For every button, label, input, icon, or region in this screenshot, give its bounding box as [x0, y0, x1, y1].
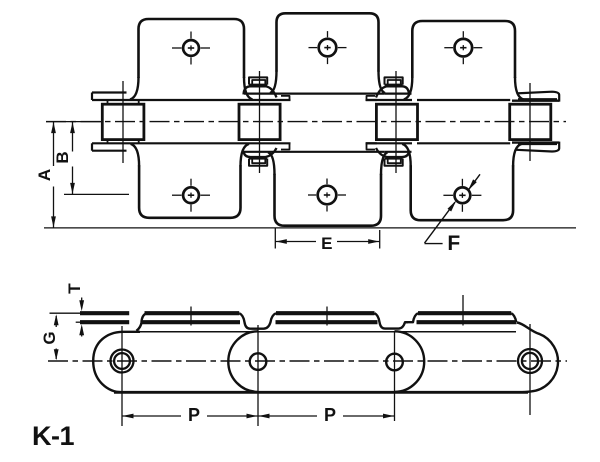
extension line E left: [274, 229, 276, 249]
leader arrow F upper: [468, 179, 477, 190]
hole centerline tick K3: [462, 295, 464, 326]
notch at joint 2: [239, 313, 276, 329]
leader arrow F lower: [448, 200, 457, 211]
attachment plate K2 top-middle flange: [277, 13, 379, 71]
dimension line P left: [122, 415, 181, 417]
top view chain centerline: [46, 121, 566, 123]
dimension line G: [55, 316, 57, 327]
inner plate edge bottom (joint 3): [366, 142, 377, 144]
pin 1 centerline: [122, 81, 124, 163]
outer bar joint 4 bottom: [517, 142, 560, 152]
outer bar joint 4 bottom top-edge: [512, 141, 559, 143]
bolt hole plate K1 bottom: [183, 187, 199, 203]
pin 4 centerline side: [529, 324, 531, 415]
flange leading S-curve link1: [137, 313, 147, 331]
roller 1: [102, 104, 144, 139]
outer bar joint 4 bottom inner line: [518, 143, 557, 145]
outer bar joint 2 bottom side: [244, 151, 271, 153]
arrow G bottom: [54, 349, 59, 360]
pin 3 head (top): [385, 77, 403, 84]
roller circle left end outer: [111, 350, 134, 373]
svg-text:P: P: [188, 405, 200, 425]
arrow P1 right: [247, 414, 258, 419]
outer bar joint 4 top: [517, 92, 560, 102]
pin circle right end inner: [522, 353, 538, 369]
svg-text:P: P: [324, 405, 336, 425]
flange end S-step right: [511, 313, 516, 322]
side view chain centerline: [48, 360, 567, 362]
outer bar joint 3 inner-edge bottom: [366, 142, 413, 144]
outer bar joint 4 top inner line: [518, 98, 557, 100]
outer bar joint 2 top: [244, 92, 271, 94]
notch right of pin 2 bottom: [281, 143, 290, 149]
pin 3 centerline: [395, 71, 397, 173]
arrow A bottom: [51, 216, 56, 227]
attachment plate K3 bottom-right flange: [411, 165, 513, 220]
outer plate top line (link 2-3): [271, 92, 385, 94]
tick line B bottom: [64, 193, 129, 195]
dimension line E: [275, 241, 316, 243]
attachment plate K1 bottom-left flange: [139, 165, 240, 218]
outer bar joint 3 top: [385, 92, 412, 94]
leader line F lower segment: [425, 202, 456, 243]
outer bar joint 3 top inner-edge: [366, 99, 413, 101]
roller 3: [376, 104, 417, 139]
extension line bottom of outer plate: [44, 227, 576, 229]
pin 1 centerline side: [121, 326, 123, 426]
outer plate top edge (joint 1 bar): [92, 91, 127, 93]
arrow B bottom: [70, 183, 75, 194]
dimension line P right: [258, 415, 317, 417]
inner plate edge top (link 3-4): [417, 99, 510, 101]
hole centerline tick K1: [190, 307, 192, 326]
arrow T lower: [81, 327, 83, 337]
bolt hole plate K3 bottom (hole F): [455, 187, 471, 203]
arrow A top: [51, 122, 56, 133]
roller 4: [510, 104, 551, 139]
dimension tick at chain centerline: [46, 121, 102, 123]
svg-text:G: G: [40, 331, 59, 344]
pin 2 centerline: [259, 71, 261, 173]
arrow G top: [54, 314, 59, 325]
inner plate edge top (joint 3): [366, 99, 377, 101]
arrow P2 right: [383, 414, 394, 419]
flange top line link1: [145, 311, 240, 315]
side view right end cap: [517, 323, 558, 393]
bushing stub: [107, 100, 109, 104]
outer bar joint 3 bottom: [385, 151, 412, 153]
flange bottom line (cut link): [80, 320, 129, 324]
outer plate end arc at pin 3: [395, 331, 425, 392]
svg-text:A: A: [35, 169, 54, 181]
inner plate edge bottom (link 3-4): [417, 142, 510, 144]
arrow B top: [70, 122, 75, 133]
arrow P2 left: [259, 414, 270, 419]
extension line E right: [379, 230, 381, 249]
attachment plate K3 top-right flange: [412, 21, 515, 78]
roller circle right end outer: [518, 349, 542, 373]
outer bar joint 2 inner-edge bottom side: [244, 142, 291, 144]
outer plate bar bottom edge (joint 1): [92, 150, 127, 152]
arrow T upper: [81, 298, 83, 309]
outer bar joint 4 top bottom-edge: [512, 99, 559, 101]
outer plate bar left end top: [91, 93, 93, 101]
pin 2 head (top): [249, 77, 267, 84]
side view left end cap: [93, 332, 140, 393]
arrow P1 left: [123, 414, 134, 419]
pin 2 head (bottom): [249, 159, 267, 166]
svg-text:T: T: [65, 283, 84, 294]
svg-text:F: F: [447, 232, 460, 255]
outer plate bar left end bottom: [91, 143, 93, 150]
bolt hole plate K2 bottom: [318, 186, 337, 205]
notch right of pin 2 top: [281, 96, 290, 100]
bolt hole plate K1 top: [183, 40, 199, 56]
notch left of pin 3 bottom: [367, 143, 376, 149]
inner plate edge bottom (link 1-2): [92, 142, 244, 144]
bolt hole plate K3 top: [455, 39, 473, 57]
dimension line B: [72, 122, 74, 152]
flange bottom line link1: [142, 320, 240, 324]
arrow E right: [368, 239, 379, 244]
notch at joint 3: [375, 313, 409, 328]
flange top line link3: [418, 311, 511, 315]
svg-text:K-1: K-1: [32, 421, 74, 451]
side view plate top edge: [137, 331, 516, 333]
svg-text:E: E: [321, 234, 332, 253]
notch left of pin 3 top: [367, 96, 376, 100]
flange bottom line link3: [417, 320, 517, 324]
outer plate end arc at pin 2: [228, 331, 258, 392]
outer plate bottom line (link 2-3): [271, 151, 385, 153]
pin 4 centerline: [529, 83, 531, 161]
extension line T bottom: [76, 321, 85, 323]
pin 3 centerline side: [394, 331, 396, 421]
flange top line link2: [276, 311, 375, 315]
pin circle joint 2: [250, 353, 267, 370]
pin 3 head (bottom): [385, 159, 403, 166]
outer bar joint 2 bottom-edge top side: [244, 99, 291, 101]
inner plate edge top (link 1-2): [92, 99, 244, 101]
pin circle joint 3: [386, 354, 403, 371]
attachment plate K2 bottom-middle flange: [275, 174, 382, 226]
flange bottom line link2: [276, 320, 378, 324]
dimension line A: [53, 122, 55, 166]
leader horizontal tick F: [425, 243, 443, 245]
pin circle left end inner: [114, 353, 130, 369]
svg-text:B: B: [53, 151, 72, 163]
arrow E left: [276, 239, 287, 244]
hole centerline tick K2: [326, 307, 328, 326]
side view plate bottom edge: [114, 391, 528, 394]
notch joint 3 right rise: [406, 313, 419, 322]
flange top line (cut link): [80, 311, 129, 315]
attachment plate K1 top-left flange: [139, 19, 245, 78]
pin 2 centerline side: [257, 325, 259, 426]
bolt hole plate K2 top: [319, 39, 337, 57]
roller 2: [239, 104, 280, 139]
leader line F upper segment: [468, 174, 480, 190]
extension line T top: [50, 312, 86, 314]
